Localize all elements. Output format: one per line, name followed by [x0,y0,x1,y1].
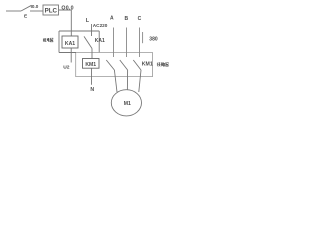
svg-text:Q0.0: Q0.0 [61,5,73,11]
wire L line [59,30,99,32]
wire Q0.0 to KA1 coil [59,10,72,36]
wire L bypass down [58,31,60,53]
wire motor lead C [139,70,141,92]
contact KM1 pole A [106,60,114,70]
svg-text:PLC: PLC [45,7,58,14]
contact KM1 pole C [133,60,141,70]
svg-text:C: C [138,16,142,22]
wire L corner down [98,31,100,53]
wire KA1 coil bottom stub U2 [70,48,72,63]
wire rail left dark segment [59,52,76,54]
wire motor lead A [114,70,117,92]
relay coil KA1 [62,36,78,48]
wire phase A [113,28,115,58]
node AC220 tick [91,24,93,36]
label 接触器 [157,62,169,66]
wire motor lead B [126,70,128,90]
svg-text:U2: U2 [63,64,70,70]
wire switch to PLC [30,10,43,12]
svg-text:380: 380 [149,37,158,43]
PLC U1 [43,5,59,15]
svg-text:KM1: KM1 [142,62,153,68]
svg-text:I0.0: I0.0 [31,4,39,9]
node 380 tick [142,32,144,43]
svg-text:N: N [90,87,94,93]
svg-text:KA1: KA1 [65,41,75,47]
wire rail loop [59,53,153,77]
switch E [6,5,32,11]
svg-text:B: B [124,16,128,22]
motor M1 [111,90,141,116]
wire KM1 coil bottom to N [91,68,93,85]
wire phase C [139,28,141,58]
wire KA1 contact to KM1 coil [91,49,93,59]
svg-text:KA1: KA1 [95,38,105,44]
svg-text:A: A [110,16,114,22]
contact KA1 blade [84,36,92,48]
contactor coil KM1 [83,59,100,69]
wire phase B [126,28,128,58]
svg-text:KM1: KM1 [85,62,96,68]
svg-text:AC220: AC220 [93,23,108,28]
contact KM1 pole B [120,60,128,70]
svg-text:M1: M1 [124,101,131,107]
label 继电器 [43,38,53,42]
